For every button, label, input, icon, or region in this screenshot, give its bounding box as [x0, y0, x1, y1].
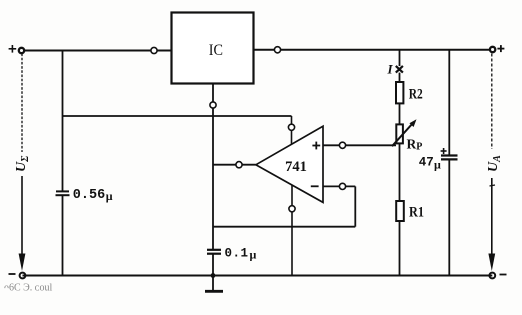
- svg-text:R2: R2: [409, 87, 423, 103]
- resistor R2: [396, 82, 423, 103]
- svg-text:0.1μ: 0.1μ: [225, 247, 257, 262]
- terminal - bottom-left: [9, 273, 26, 279]
- pin circle op-amp top: [288, 124, 294, 130]
- wire 0.56u column lower: [62, 196, 64, 276]
- wire R2 to Rp: [399, 103, 401, 124]
- capacitor C1 0.56u: [56, 191, 70, 195]
- label - input: [311, 185, 319, 187]
- pin circle op-amp output: [236, 162, 242, 168]
- junction dot at bottom rail: [211, 273, 216, 278]
- wire top rail right segment: [254, 49, 490, 51]
- arrow down on right rail: [488, 254, 495, 272]
- wire + input to Rp wiper: [323, 144, 396, 146]
- wire IC bottom pin down: [212, 84, 214, 249]
- wire op-amp top pin: [291, 116, 293, 145]
- terminal + top-right: [490, 45, 505, 52]
- svg-text:47: 47: [419, 156, 434, 170]
- label + input: [312, 142, 320, 150]
- capacitor C3 47u polarized: [441, 148, 458, 159]
- wire left rail lower: [21, 176, 23, 257]
- wire R1 to bottom rail: [399, 221, 401, 276]
- svg-text:R1: R1: [409, 205, 424, 221]
- svg-text:0.56μ: 0.56μ: [73, 188, 113, 203]
- wire - input right then down: [323, 186, 355, 226]
- terminal + top-left: [9, 45, 25, 53]
- ground: [205, 276, 223, 292]
- capacitor C2 0.1u: [207, 250, 221, 254]
- wire feedback horizontal: [213, 226, 355, 228]
- arrow down on left rail: [19, 254, 26, 272]
- wire left rail upper: [21, 54, 23, 153]
- IC U1: [172, 13, 254, 84]
- wire right chain top: [399, 50, 401, 66]
- pin circle op-amp bottom: [289, 206, 295, 212]
- svg-text:IC: IC: [209, 42, 223, 59]
- wire top rail left segment: [24, 50, 171, 52]
- label U_A: [486, 155, 503, 186]
- svg-text:μ: μ: [434, 158, 441, 172]
- wire right rail upper: [491, 54, 493, 150]
- terminal - bottom-right: [489, 273, 506, 279]
- wire 47u column lower: [448, 160, 450, 276]
- x mark on wire: [396, 66, 403, 73]
- wire 47u column upper: [448, 50, 450, 155]
- wire op-amp bottom pin down to bottom rail: [291, 185, 293, 276]
- wire right rail lower: [491, 178, 493, 257]
- node circle left of IC: [151, 47, 157, 53]
- pin circle - input: [339, 183, 345, 189]
- wire 0.56u column upper: [62, 51, 64, 192]
- wire op-amp output to IC pin line: [213, 164, 256, 166]
- wire bottom rail: [23, 275, 493, 277]
- resistor R1: [396, 201, 424, 221]
- wire horizontal from 0.56u column to op-amp top pin: [63, 115, 292, 117]
- svg-text:741: 741: [285, 159, 307, 175]
- node circle right of IC: [274, 47, 280, 53]
- wire Rp to R1: [399, 143, 401, 201]
- svg-text:I: I: [386, 62, 393, 77]
- pin circle + input: [339, 142, 345, 148]
- node circle below IC: [210, 102, 216, 108]
- wire x to R2: [399, 73, 401, 82]
- wire below 0.1u cap: [212, 254, 214, 276]
- potentiometer Rp: [392, 119, 422, 152]
- op-amp U2 741: [256, 126, 323, 202]
- svg-text:ᴖ6С Э. ᴄᴏul: ᴖ6С Э. ᴄᴏul: [4, 283, 53, 294]
- label U_sigma: [14, 155, 31, 172]
